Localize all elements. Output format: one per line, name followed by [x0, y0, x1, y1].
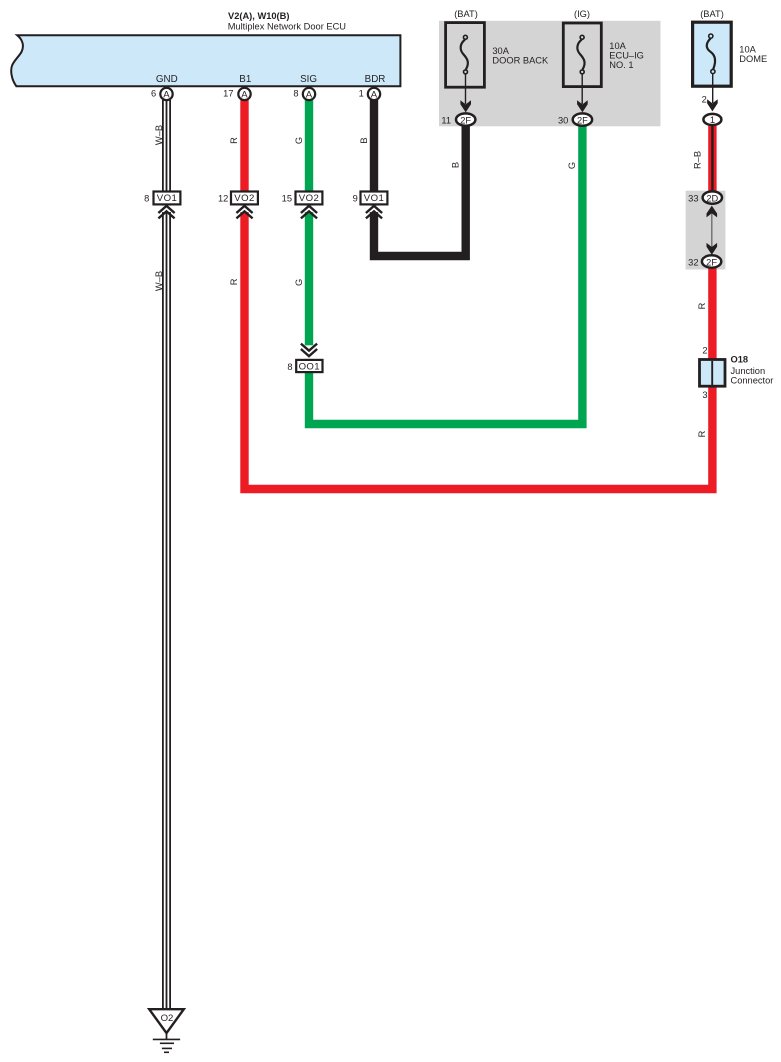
svg-text:11: 11 — [441, 116, 451, 126]
svg-text:6: 6 — [151, 89, 156, 99]
svg-text:G: G — [567, 162, 577, 169]
svg-text:R: R — [697, 430, 707, 437]
svg-text:G: G — [294, 137, 304, 144]
svg-text:NO. 1: NO. 1 — [609, 60, 633, 70]
svg-text:Connector: Connector — [731, 376, 774, 386]
svg-text:DOME: DOME — [739, 54, 767, 64]
svg-text:17: 17 — [223, 89, 233, 99]
wire B (BDR) main path — [374, 100, 466, 256]
relay block oval 32 2F — [688, 255, 721, 267]
svg-text:2: 2 — [702, 346, 707, 356]
svg-text:DOOR BACK: DOOR BACK — [492, 55, 549, 65]
svg-text:VO2: VO2 — [234, 193, 254, 204]
svg-text:A: A — [163, 89, 170, 100]
svg-text:3: 3 — [702, 390, 707, 400]
svg-text:Junction: Junction — [731, 366, 766, 376]
svg-text:VO1: VO1 — [157, 193, 177, 204]
svg-text:A: A — [371, 89, 378, 100]
fuse 10A ECU-IG NO. 1 — [563, 9, 644, 112]
wire R-B (dome to 2D) — [693, 126, 713, 196]
svg-text:8: 8 — [144, 194, 149, 204]
svg-text:R: R — [697, 302, 707, 309]
svg-text:W–B: W–B — [154, 271, 164, 291]
wire G (SIG) main path — [309, 100, 582, 424]
svg-text:ECU–IG: ECU–IG — [609, 51, 644, 61]
svg-text:2F: 2F — [577, 115, 588, 125]
svg-text:R: R — [229, 137, 239, 144]
svg-text:VO2: VO2 — [299, 193, 319, 204]
svg-text:SIG: SIG — [300, 74, 317, 85]
svg-text:R: R — [229, 278, 239, 285]
svg-text:2D: 2D — [706, 193, 718, 203]
fuse output oval 30 2F — [558, 113, 592, 125]
svg-text:GND: GND — [156, 74, 178, 85]
wire R (B1) main path — [245, 100, 713, 489]
ECU pin circle GND 6(A) — [151, 88, 173, 101]
svg-text:B: B — [450, 162, 460, 168]
fuse 10A DOME — [693, 9, 768, 111]
in-block link arrows between 2D and 2F — [707, 206, 718, 255]
svg-text:OO1: OO1 — [299, 362, 320, 373]
svg-text:32: 32 — [688, 257, 698, 267]
svg-text:9: 9 — [353, 194, 358, 204]
svg-text:(BAT): (BAT) — [454, 9, 478, 19]
node oval (1) — [703, 114, 721, 125]
connector OO1 pin 8 (G wire, chevrons point down) — [287, 344, 322, 373]
svg-text:O18: O18 — [731, 355, 749, 365]
svg-text:B: B — [359, 137, 369, 143]
svg-text:A: A — [241, 89, 248, 100]
svg-text:B1: B1 — [239, 74, 251, 85]
fuse panel gray box — [439, 21, 661, 127]
relay block oval 33 2D — [688, 191, 722, 203]
ECU pin circle BDR 1(A) — [359, 88, 381, 101]
connector VO1 pin 8 (W-B wire) — [144, 192, 180, 219]
svg-text:2F: 2F — [706, 257, 717, 267]
svg-text:1: 1 — [359, 89, 364, 99]
svg-text:2F: 2F — [460, 115, 471, 125]
svg-text:VO1: VO1 — [364, 193, 384, 204]
fuse 30A DOOR BACK — [446, 9, 549, 112]
svg-text:2: 2 — [702, 95, 707, 105]
svg-text:1: 1 — [710, 115, 715, 125]
svg-text:O2: O2 — [161, 1013, 174, 1024]
svg-text:G: G — [294, 279, 304, 286]
svg-text:33: 33 — [688, 194, 698, 204]
svg-text:BDR: BDR — [365, 74, 386, 85]
svg-text:W–B: W–B — [154, 125, 164, 145]
ECU banner V2(A), W10(B) — [11, 35, 400, 86]
svg-text:A: A — [306, 89, 313, 100]
relay block gray box (right, 2D/2F) — [686, 191, 726, 270]
ground symbol O2 — [149, 1009, 184, 1052]
svg-text:R–B: R–B — [693, 151, 703, 169]
ECU pin circle B1 17(A) — [223, 88, 251, 101]
svg-text:V2(A), W10(B): V2(A), W10(B) — [228, 11, 289, 21]
wire W-B (GND) triple line — [163, 100, 170, 1010]
junction connector O18 — [700, 346, 774, 401]
svg-text:(BAT): (BAT) — [700, 9, 724, 19]
connector VO2 pin 15 (G wire) — [282, 192, 323, 219]
svg-text:8: 8 — [287, 362, 292, 372]
svg-text:(IG): (IG) — [574, 9, 590, 19]
fuse output oval 11 2F — [441, 113, 475, 125]
svg-text:30: 30 — [558, 116, 568, 126]
svg-text:15: 15 — [282, 194, 292, 204]
svg-text:12: 12 — [218, 194, 228, 204]
svg-text:8: 8 — [293, 89, 298, 99]
connector VO1 pin 9 (B wire) — [353, 192, 388, 219]
connector VO2 pin 12 (R wire) — [218, 192, 258, 219]
ECU pin circle SIG 8(A) — [293, 88, 315, 101]
svg-text:Multiplex Network Door ECU: Multiplex Network Door ECU — [228, 21, 346, 31]
svg-text:10A: 10A — [609, 41, 626, 51]
